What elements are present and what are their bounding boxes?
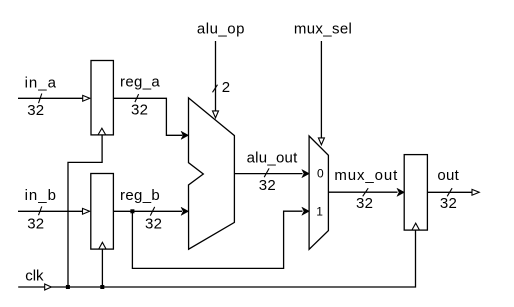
svg-text:reg_b: reg_b: [120, 187, 160, 204]
svg-text:0: 0: [317, 167, 324, 181]
svg-text:reg_a: reg_a: [120, 74, 160, 91]
svg-text:alu_out: alu_out: [247, 149, 299, 166]
junction clk to reg_b: [100, 285, 104, 289]
svg-text:in_a: in_a: [25, 75, 57, 92]
filled arrowhead into ALU input A: [181, 131, 189, 139]
svg-text:32: 32: [131, 102, 148, 119]
wire clk to reg_b clock: [101, 249, 103, 287]
filled arrowhead into ALU input B: [181, 207, 189, 215]
svg-text:2: 2: [222, 79, 231, 96]
svg-text:32: 32: [27, 215, 44, 232]
bus slash alu_out: [264, 168, 269, 177]
bus slash in_b: [39, 206, 42, 215]
junction clk to reg_a: [66, 285, 70, 289]
wire reg_b to ALU input B: [113, 210, 182, 212]
wire clk: [18, 230, 415, 287]
wire mux_sel: [320, 41, 322, 138]
bus slash alu_op: [213, 85, 218, 93]
svg-text:32: 32: [259, 177, 276, 194]
bus slash out: [447, 188, 452, 196]
svg-text:1: 1: [316, 204, 323, 218]
clock triangle reg_a: [98, 128, 106, 135]
svg-text:alu_op: alu_op: [197, 21, 245, 38]
ALU: [189, 98, 235, 249]
svg-text:clk: clk: [25, 267, 44, 284]
svg-text:in_b: in_b: [25, 187, 57, 204]
wire mux_out: [328, 191, 397, 193]
clock triangle reg_b: [99, 242, 106, 249]
open arrowhead into reg_b: [83, 208, 90, 214]
wire reg_b to mux input 1: [132, 211, 302, 268]
open arrowhead alu_op onto ALU: [213, 111, 219, 118]
wire in_a: [18, 97, 83, 99]
wire alu_op: [215, 41, 217, 111]
svg-text:32: 32: [27, 102, 44, 119]
filled arrowhead into mux input 1: [302, 207, 310, 215]
register reg_a: [91, 61, 113, 135]
open arrowhead mux_sel onto mux: [318, 138, 324, 145]
clock triangle out register: [412, 223, 420, 230]
svg-text:mux_out: mux_out: [334, 167, 398, 184]
bus slash reg_b: [150, 207, 154, 216]
bus slash reg_a: [135, 94, 139, 102]
open arrowhead on clk: [45, 284, 52, 290]
open arrowhead out: [472, 189, 479, 195]
mux: [309, 136, 328, 249]
svg-text:32: 32: [440, 195, 457, 212]
svg-text:out: out: [437, 167, 459, 184]
wire alu_out: [234, 173, 302, 175]
svg-text:mux_sel: mux_sel: [294, 21, 352, 38]
wire out: [427, 191, 472, 193]
open arrowhead into reg_a: [83, 95, 90, 101]
register out: [404, 155, 427, 231]
wire in_b: [18, 210, 83, 212]
bus slash mux_out: [363, 188, 369, 196]
filled arrowhead into out register: [397, 188, 405, 196]
register reg_b: [91, 174, 114, 250]
svg-text:32: 32: [356, 195, 373, 212]
bus slash in_a: [39, 94, 42, 104]
wire reg_a to ALU input A: [113, 98, 182, 135]
wire clk to reg_a clock: [68, 135, 102, 287]
svg-text:32: 32: [145, 215, 162, 232]
junction on reg_b output: [130, 209, 134, 213]
filled arrowhead into mux input 0: [302, 170, 310, 178]
